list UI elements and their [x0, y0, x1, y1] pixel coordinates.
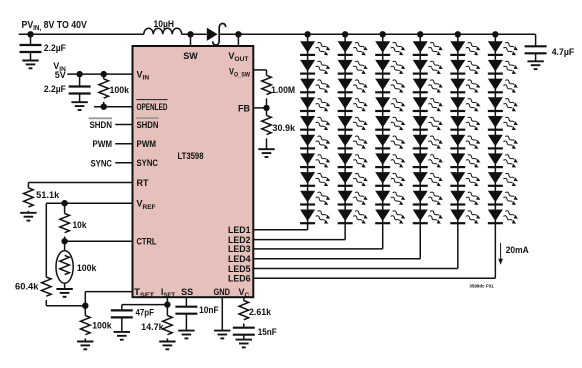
LED D44 [413, 97, 444, 113]
LED D37 [375, 153, 406, 169]
svg-text:SS: SS [181, 287, 193, 297]
ground (GND pin) [214, 331, 230, 339]
ground (C1) [22, 61, 38, 69]
LED D36 [375, 134, 406, 150]
wire: column 2 backbone [344, 34, 346, 239]
svg-text:CTRL: CTRL [137, 237, 157, 247]
LED D23 [338, 78, 369, 94]
svg-text:51.1k: 51.1k [36, 190, 60, 200]
op-amp U1 LT3598 IC body [133, 46, 254, 297]
LED D21 [338, 41, 369, 57]
resistor R6 14.7k [166, 305, 168, 316]
LED D27 [338, 153, 369, 169]
svg-text:100k: 100k [77, 263, 97, 273]
LED D53 [450, 78, 481, 94]
svg-text:60.4k: 60.4k [15, 282, 40, 292]
svg-text:30.9k: 30.9k [273, 123, 296, 133]
wire: RT to 51.1k [28, 182, 132, 184]
svg-text:LED4: LED4 [228, 254, 251, 264]
LED D67 [488, 153, 519, 169]
wire: VO_SW to 1.00M [253, 69, 266, 71]
wire: FB [253, 107, 266, 109]
LED D64 [488, 97, 519, 113]
ground (RT1) [56, 289, 72, 297]
svg-text:LED1: LED1 [228, 225, 251, 235]
diode D1 schottky catch diode [207, 28, 218, 41]
wire: column 4 backbone [419, 34, 421, 258]
LED D55 [450, 116, 481, 132]
inductor L1 10uH [144, 28, 182, 34]
LED D13 [300, 78, 331, 94]
ground (C5) [178, 331, 194, 339]
capacitor C1 2.2uF input [30, 34, 32, 45]
svg-text:10k: 10k [73, 220, 88, 230]
node rail junction col3 [380, 31, 386, 37]
node OPENLED junction [101, 104, 107, 110]
wire: PVIN top rail [19, 33, 144, 35]
LED D210 [338, 209, 369, 225]
ground (C4) [114, 332, 130, 340]
LED D39 [375, 190, 406, 206]
wire: SHDN stub [115, 124, 132, 126]
resistor R2 51.1k [24, 188, 34, 207]
LED D29 [338, 190, 369, 206]
wire: GND pin stub [221, 297, 223, 330]
LED D63 [488, 78, 519, 94]
svg-text:4.7µF: 4.7µF [552, 47, 575, 57]
svg-text:FB: FB [238, 103, 250, 113]
wire: ISET pin stub [166, 297, 168, 304]
LED D43 [413, 78, 444, 94]
LED D12 [300, 60, 331, 76]
node ISET junction [164, 301, 170, 307]
LED string 2 [253, 31, 368, 240]
wire: VOUT pin stub [237, 34, 239, 46]
svg-text:2.2µF: 2.2µF [44, 43, 66, 53]
node VOUT junction [235, 31, 241, 37]
LED D24 [338, 97, 369, 113]
wire: LED3 return [253, 248, 382, 250]
LED D33 [375, 78, 406, 94]
node rail junction col2 [342, 31, 348, 37]
node TSET junction [82, 303, 88, 309]
LED D42 [413, 60, 444, 76]
resistor R9 30.9k [266, 108, 268, 116]
ground (C3) [71, 102, 87, 110]
node CTRL junction [61, 238, 67, 244]
LED D66 [488, 134, 519, 150]
LED D51 [450, 41, 481, 57]
LED D34 [375, 97, 406, 113]
LED D25 [338, 116, 369, 132]
wire: VIN 5V to VIN pin [67, 73, 132, 75]
svg-text:OPENLED: OPENLED [137, 102, 168, 112]
wire: SW pin stub [190, 34, 192, 46]
current arrow 20mA [500, 243, 502, 261]
resistor R7 2.61k VC [243, 297, 245, 300]
svg-text:LT3598: LT3598 [178, 151, 204, 161]
thermistor RT1 100k NTC [64, 241, 66, 250]
wire: column 1 backbone [307, 34, 309, 230]
LED D54 [450, 97, 481, 113]
LED D15 [300, 116, 331, 132]
capacitor C6 15nF [233, 328, 255, 335]
svg-text:47pF: 47pF [136, 308, 155, 318]
svg-text:PWM: PWM [137, 139, 157, 149]
LED D35 [375, 116, 406, 132]
wire: column 5 backbone [457, 34, 459, 268]
wire: PWM stub [115, 143, 132, 145]
LED D310 [375, 209, 406, 225]
resistor R4 60.4k [42, 277, 52, 296]
LED D22 [338, 60, 369, 76]
wire: LED4 return [253, 258, 420, 260]
LED D49 [413, 190, 444, 206]
wire: TSET pin [85, 291, 132, 293]
node rail junction col4 [417, 31, 423, 37]
node SW junction [187, 31, 193, 37]
LED string 5 [253, 31, 481, 268]
wire: inductor to diode [182, 33, 207, 35]
ground (C6) [236, 340, 252, 348]
node rail junction col1 [304, 31, 310, 37]
svg-text:SYNC: SYNC [91, 158, 113, 168]
LED string 1 [253, 31, 331, 230]
svg-text:10nF: 10nF [199, 305, 219, 315]
LED D41 [413, 41, 444, 57]
LED D510 [450, 209, 481, 225]
svg-text:LED5: LED5 [228, 264, 251, 274]
ground (R5) [77, 342, 93, 350]
LED D19 [300, 190, 331, 206]
capacitor C3 2.2uF VIN [79, 74, 81, 86]
LED D26 [338, 134, 369, 150]
resistor R8 1.00M [262, 75, 272, 94]
node rail junction col5 [455, 31, 461, 37]
wire: VREF down to 60.4k [45, 203, 47, 277]
svg-text:15nF: 15nF [258, 327, 277, 337]
svg-text:SHDN: SHDN [90, 120, 113, 130]
wire: diode to LED rail and 4.7uF [219, 33, 535, 35]
svg-text:100k: 100k [92, 321, 112, 331]
LED D52 [450, 60, 481, 76]
LED D410 [413, 209, 444, 225]
capacitor C2 4.7uF output [535, 34, 537, 46]
label SHDN external [89, 117, 112, 119]
LED D16 [300, 134, 331, 150]
capacitor C4 47pF [121, 305, 123, 311]
resistor R5 100k TSET [84, 306, 86, 316]
LED D28 [338, 172, 369, 188]
ground (R2) [20, 213, 36, 221]
resistor R1 100k pull-up [103, 74, 105, 79]
LED D17 [300, 153, 331, 169]
svg-text:GND: GND [214, 287, 231, 297]
svg-text:10µH: 10µH [154, 19, 175, 29]
LED D18 [300, 172, 331, 188]
resistor R3 10k [64, 203, 66, 213]
node rail junction col6 [492, 31, 498, 37]
pin SHDN [136, 117, 158, 119]
wire: 47pF to ISET [122, 304, 168, 306]
svg-text:LED6: LED6 [228, 274, 251, 284]
ground (C2) [527, 61, 543, 69]
svg-text:3598dc F01: 3598dc F01 [469, 284, 494, 289]
wire: column 6 backbone [494, 34, 496, 278]
svg-text:5V: 5V [55, 70, 66, 80]
svg-text:100k: 100k [110, 85, 130, 95]
node PVIN junction [27, 31, 33, 37]
wire: 60.4k to TSET node [46, 305, 85, 307]
wire: CTRL [65, 240, 133, 242]
LED string 4 [253, 31, 444, 259]
node FB junction [263, 105, 269, 111]
wire: LED5 return [253, 268, 457, 270]
LED D14 [300, 97, 331, 113]
node VREF junction [61, 200, 67, 206]
LED D62 [488, 60, 519, 76]
svg-text:1.00M: 1.00M [271, 85, 295, 95]
LED D46 [413, 134, 444, 150]
node VIN 100k junction [101, 71, 107, 77]
svg-text:PVIN,​ 8V TO 40V: PVIN,​ 8V TO 40V [22, 20, 87, 32]
svg-text:SW: SW [183, 51, 198, 61]
LED D69 [488, 190, 519, 206]
LED D59 [450, 190, 481, 206]
LED D45 [413, 116, 444, 132]
LED D610 [488, 209, 519, 225]
svg-text:SYNC: SYNC [137, 158, 159, 168]
svg-text:14.7k: 14.7k [141, 322, 164, 332]
LED D47 [413, 153, 444, 169]
LED D11 [300, 41, 331, 57]
wire: column 3 backbone [382, 34, 384, 249]
svg-text:20mA: 20mA [506, 245, 529, 255]
wire: VREF [46, 202, 132, 204]
svg-text:2.61k: 2.61k [249, 307, 272, 317]
ground (R9) [258, 149, 274, 157]
svg-text:LED3: LED3 [228, 244, 251, 254]
wire: LED6 return [253, 277, 495, 279]
LED D57 [450, 153, 481, 169]
wire: OPENLED [94, 106, 133, 108]
LED D68 [488, 172, 519, 188]
LED D31 [375, 41, 406, 57]
wire: LED2 return [253, 239, 345, 241]
node VIN cap junction [76, 71, 82, 77]
capacitor C5 10nF SS [185, 297, 187, 307]
LED D38 [375, 172, 406, 188]
LED string 6 [253, 31, 519, 278]
svg-text:SHDN: SHDN [137, 120, 159, 130]
LED D56 [450, 134, 481, 150]
LED D110 [300, 209, 331, 225]
LED D58 [450, 172, 481, 188]
wire: LED1 return [253, 229, 307, 231]
ground (R6) [159, 342, 175, 350]
LED D61 [488, 41, 519, 57]
LED D48 [413, 172, 444, 188]
pin OPENLED [136, 99, 167, 101]
svg-text:RT: RT [137, 178, 149, 188]
svg-text:PWM: PWM [93, 139, 113, 149]
svg-text:2.2µF: 2.2µF [44, 84, 66, 94]
LED D65 [488, 116, 519, 132]
LED D32 [375, 60, 406, 76]
wire: SYNC stub [115, 162, 132, 164]
LED string 3 [253, 31, 406, 249]
